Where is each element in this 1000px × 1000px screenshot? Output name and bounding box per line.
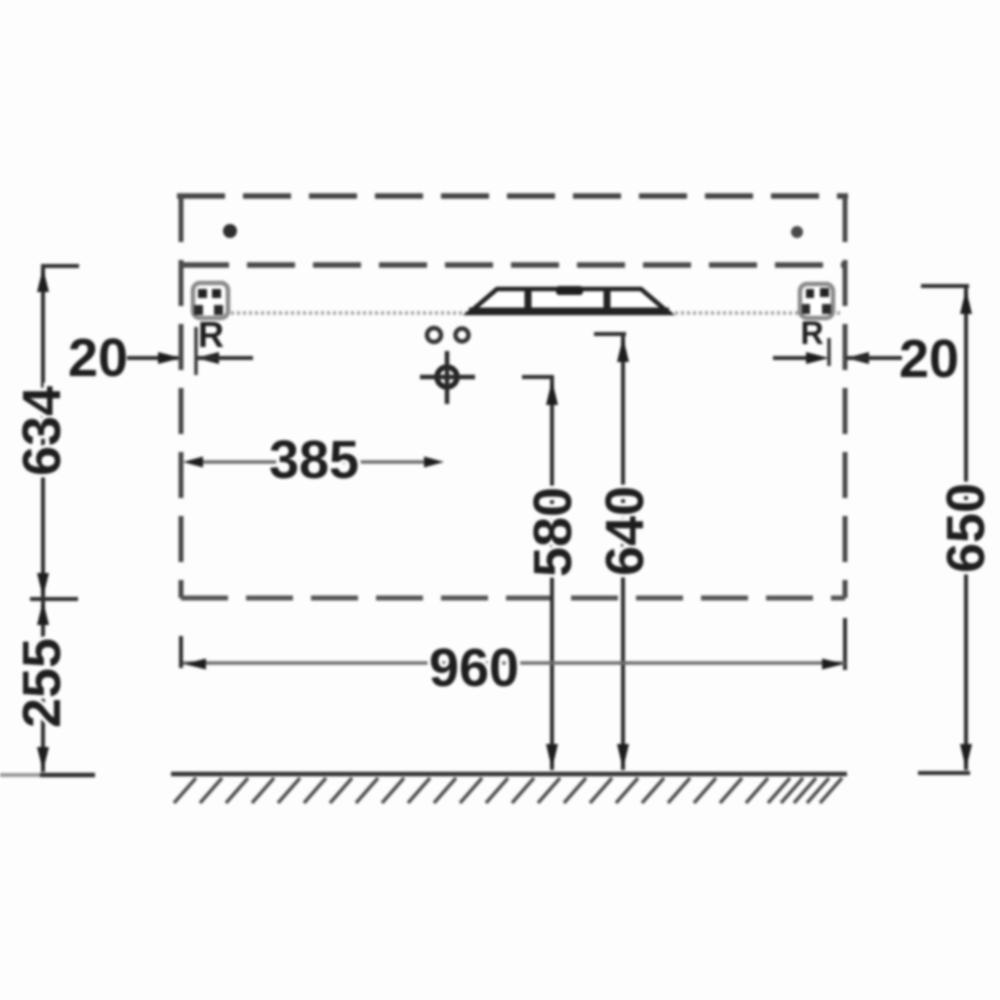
dimension 640 line (594, 334, 629, 770)
svg-text:255: 255 (12, 638, 72, 728)
svg-text:20: 20 (68, 328, 128, 388)
dashed outline left edge (179, 196, 184, 598)
overflow profile (469, 286, 669, 313)
dimension 20 left tail (196, 356, 253, 360)
dimension 960 line (181, 618, 845, 670)
dimension 634 line (30, 266, 79, 599)
svg-text:650: 650 (936, 483, 996, 573)
extension tick left wall (194, 327, 198, 375)
svg-text:20: 20 (899, 329, 959, 389)
dimension 580 line (522, 377, 558, 770)
dimension 20 right arrow left (846, 352, 869, 364)
fixing hole small left (427, 328, 441, 342)
hole left top strip (223, 224, 237, 238)
dimension 255 line (0, 600, 95, 775)
svg-text:385: 385 (269, 430, 359, 490)
dimension 20 left arrow left (196, 352, 219, 364)
svg-text:R: R (800, 315, 823, 351)
dotted worktop line (195, 311, 840, 315)
extension tick right wall (827, 338, 831, 366)
hole right top strip (791, 226, 803, 238)
floor hatching (174, 778, 842, 803)
svg-text:960: 960 (429, 638, 519, 698)
floor line (171, 772, 847, 777)
dimension 20 right arrow right (806, 352, 829, 364)
svg-text:640: 640 (595, 486, 655, 576)
dashed outline top edge (177, 193, 848, 199)
dashed inner shelf line (181, 262, 845, 268)
fixing hole small right (456, 329, 469, 342)
svg-text:580: 580 (523, 487, 583, 577)
svg-text:R: R (198, 314, 224, 355)
dimension 650 line (918, 286, 972, 773)
dimension 20 right tail left (773, 356, 807, 360)
dimension 20 left line (127, 356, 178, 360)
svg-text:634: 634 (12, 386, 72, 476)
dimension 20 right tail right (846, 356, 902, 360)
dimension 20 left arrow right (158, 352, 181, 364)
dashed outline bottom edge (181, 596, 845, 601)
dimension 385 line (183, 457, 444, 468)
drain crosshair (420, 351, 475, 404)
bracket R left (193, 283, 228, 318)
dashed outline right edge (843, 196, 848, 598)
bracket R right (800, 284, 833, 318)
